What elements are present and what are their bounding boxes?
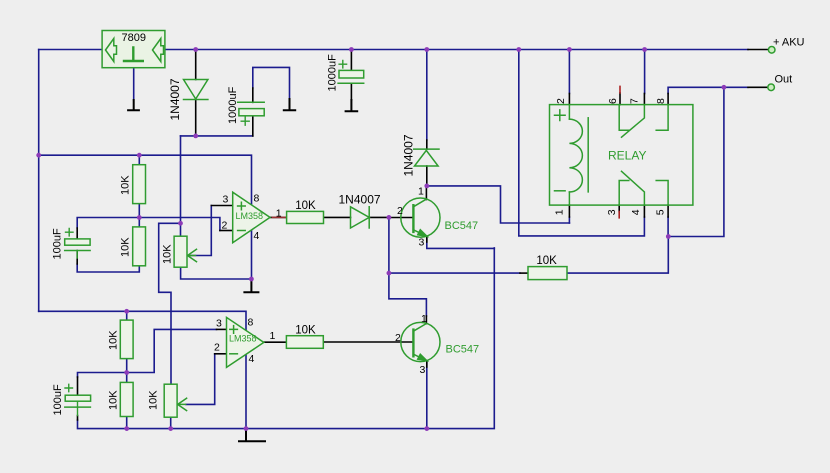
transistor Q2 collector diagonal bbox=[413, 324, 426, 332]
svg-text:3: 3 bbox=[420, 364, 426, 376]
svg-text:1: 1 bbox=[418, 186, 424, 198]
node 9V lower rail / R4 bbox=[124, 309, 129, 314]
node top rail / D1 bbox=[193, 47, 198, 52]
wire 9V rail upper (to opamp1 pin8) bbox=[39, 155, 252, 205]
wire opamp2 output to R6 bbox=[264, 341, 287, 343]
opamp U1 minus sign bbox=[238, 230, 246, 232]
svg-text:7809: 7809 bbox=[122, 32, 146, 44]
terminal +AKU circle bbox=[768, 47, 775, 54]
opamp U1 plus sign bbox=[238, 202, 246, 210]
wire base node to R7 bbox=[389, 272, 520, 274]
wire Q1 emitter black part bbox=[426, 236, 428, 242]
svg-text:8: 8 bbox=[655, 98, 667, 104]
wire relay coil pin1 wire bbox=[568, 217, 570, 223]
capacitor C2 1000uF plates bbox=[338, 61, 364, 84]
svg-text:2: 2 bbox=[222, 220, 228, 232]
ground for opamp1 pin4 bbox=[244, 279, 258, 292]
svg-text:LM358: LM358 bbox=[229, 334, 257, 344]
relay K1 box bbox=[550, 105, 693, 206]
wire C1 negative hook to ground bbox=[253, 67, 290, 99]
capacitor C4 100uF plates bbox=[65, 384, 91, 407]
wire C3 bottom loop to R2 bbox=[77, 264, 139, 272]
opamp U2 minus sign bbox=[230, 353, 238, 355]
resistor R2 10K (divider1 bottom) bbox=[133, 227, 146, 266]
svg-text:10K: 10K bbox=[120, 237, 132, 257]
wire C3 leads black bbox=[76, 228, 78, 264]
ground under 7809 bbox=[128, 100, 139, 110]
svg-text:10K: 10K bbox=[295, 325, 316, 337]
svg-text:5: 5 bbox=[655, 209, 667, 215]
svg-text:7: 7 bbox=[629, 98, 641, 104]
wire relay pin5 stub black bbox=[667, 205, 669, 217]
transistor Q2 base bar bbox=[412, 330, 414, 357]
svg-text:2: 2 bbox=[397, 205, 403, 217]
wire +12V top rail right segment to +AKU bbox=[165, 49, 748, 51]
regulator U3 7809 box bbox=[102, 31, 165, 68]
wire C1 leads black bbox=[252, 88, 254, 136]
node top rail / relay pin2 bbox=[567, 47, 572, 52]
wire opamp1 output to R3 bbox=[270, 216, 287, 218]
svg-text:1: 1 bbox=[421, 313, 427, 325]
wire relay pin8 to Out bbox=[668, 87, 748, 93]
wire pot2 bottom lead bbox=[170, 417, 172, 428]
ground for C2 bbox=[346, 100, 358, 111]
wire AKU terminal stub bbox=[748, 49, 769, 51]
node D1 cathode bbox=[193, 134, 198, 139]
wire +12V top rail left segment bbox=[39, 49, 102, 51]
wire opamp2 pin2 stub bbox=[215, 353, 227, 355]
wire relay pin5 wire bbox=[667, 217, 669, 237]
svg-text:100uF: 100uF bbox=[52, 384, 64, 415]
svg-text:10K: 10K bbox=[108, 330, 120, 350]
node top rail / pin4 wire bbox=[516, 47, 521, 52]
svg-text:3: 3 bbox=[223, 193, 229, 205]
wire base node to Q1 base bbox=[389, 217, 414, 219]
wire relay pin7 from rail bbox=[644, 50, 646, 94]
svg-text:6: 6 bbox=[607, 98, 619, 104]
wire D2 lead black parts bbox=[426, 140, 428, 186]
svg-text:8: 8 bbox=[254, 193, 260, 205]
node bottom rail / Q2 emitter bbox=[424, 426, 429, 431]
wire Out terminal stub bbox=[748, 86, 768, 88]
wire Q1 collector black part bbox=[425, 186, 427, 200]
svg-text:1000uF: 1000uF bbox=[227, 86, 239, 124]
wire relay pin2 stub black bbox=[568, 94, 570, 105]
capacitor C3 lower pin stub bbox=[76, 251, 78, 258]
capacitor C2 plus sign bbox=[339, 61, 347, 68]
node pot1 feed branch bbox=[178, 221, 183, 226]
node Out wire bbox=[722, 85, 727, 90]
svg-text:4: 4 bbox=[249, 353, 255, 365]
transistor Q1 collector diagonal bbox=[413, 199, 426, 207]
svg-text:1000uF: 1000uF bbox=[327, 54, 339, 92]
regulator U3 right arrow bbox=[153, 39, 164, 62]
svg-text:3: 3 bbox=[216, 318, 222, 330]
svg-text:1: 1 bbox=[276, 208, 282, 220]
diode D3 1N4007 (horizontal) bbox=[351, 207, 370, 228]
wire R7 left black stub bbox=[520, 272, 528, 274]
wire Q2 collector path bbox=[389, 273, 427, 316]
wire R3 to D3 bbox=[324, 216, 351, 218]
capacitor C1 1000uF plates bbox=[238, 102, 265, 125]
potentiometer P1 10K body bbox=[174, 236, 187, 267]
wire relay pin2 from rail bbox=[568, 50, 570, 94]
transistor Q2 emitter arrowhead bbox=[418, 354, 427, 361]
diode D1 1N4007 (vertical, top-left) bbox=[184, 80, 208, 100]
wire R6 to Q2 base bbox=[323, 341, 413, 343]
relay K1 pin2 internal bbox=[568, 105, 570, 120]
potentiometer P2 wiper arrow bbox=[178, 398, 187, 410]
capacitor C1 plus sign bbox=[241, 117, 249, 125]
wire relay pin8 stub black bbox=[667, 94, 669, 105]
svg-text:1N4007: 1N4007 bbox=[402, 134, 416, 176]
svg-text:10K: 10K bbox=[148, 390, 160, 410]
svg-text:2: 2 bbox=[395, 332, 401, 344]
node top rail / C2 bbox=[349, 47, 354, 52]
svg-text:3: 3 bbox=[419, 237, 425, 249]
svg-text:4: 4 bbox=[254, 230, 260, 242]
svg-text:1: 1 bbox=[553, 209, 565, 215]
resistor R5 10K (divider2 bottom) bbox=[120, 382, 133, 416]
wire Q1 emitter to bottom rail bbox=[427, 236, 495, 248]
svg-text:1N4007: 1N4007 bbox=[168, 78, 182, 120]
wire relay pin7 stub black bbox=[643, 94, 645, 105]
regulator U3 internal ground bbox=[124, 48, 143, 62]
node top rail / D2 bbox=[424, 47, 429, 52]
opamp U2 plus sign bbox=[230, 326, 238, 334]
svg-text:10K: 10K bbox=[108, 390, 120, 410]
wire opamp1 pin3 stub bbox=[211, 205, 232, 207]
transistor Q1 emitter diagonal bbox=[413, 230, 426, 237]
transistor Q2 BC547 circle bbox=[401, 322, 440, 361]
wire relay pin4 stub black bbox=[643, 205, 645, 217]
capacitor C4 plus sign bbox=[65, 384, 73, 391]
capacitor C3 plus sign bbox=[66, 229, 74, 236]
svg-text:10K: 10K bbox=[120, 175, 132, 195]
wire divider2 mid node horizontal bbox=[78, 329, 217, 377]
wire divider1 leads bbox=[138, 155, 140, 227]
wire relay pin1 stub black bbox=[568, 205, 570, 217]
wire Q1 collector node to relay coil pin1 bbox=[427, 186, 570, 223]
node 9V rail / R1 top bbox=[137, 153, 142, 158]
wire opamp1 pin2 stub bbox=[220, 230, 233, 232]
wire node9V horizontal under D1 bbox=[181, 135, 253, 137]
potentiometer P2 10K body bbox=[164, 384, 177, 417]
capacitor C3 100uF plates bbox=[65, 229, 90, 251]
wire relay pin6 stub black bbox=[619, 93, 621, 105]
wire D2 top lead bbox=[426, 50, 428, 141]
opamp U1 LM358 triangle bbox=[233, 192, 270, 243]
relay K1 coil minus sign bbox=[555, 190, 566, 192]
capacitor C4 pin stubs bbox=[77, 401, 79, 415]
svg-text:8: 8 bbox=[248, 316, 254, 328]
node bottom rail / P2 bbox=[168, 426, 173, 431]
red pin tick relay pin6 bbox=[619, 86, 621, 93]
svg-text:BC547: BC547 bbox=[445, 220, 479, 232]
wire pot1 bottom to gnd node bbox=[181, 267, 252, 279]
svg-text:1N4007: 1N4007 bbox=[339, 193, 381, 207]
wire 9V rail lower (to opamp2 pin8) bbox=[39, 311, 246, 330]
wire divider1 mid node horizontal bbox=[77, 218, 220, 231]
resistor R1 10K (divider1 top) bbox=[133, 165, 146, 204]
relay K1 pin5 internal contact bbox=[656, 181, 668, 206]
svg-text:4: 4 bbox=[630, 209, 642, 215]
ground for opamp2 pin4 bbox=[239, 429, 265, 442]
relay K1 pin4 internal lever bbox=[622, 171, 645, 205]
wire D1 leads black bbox=[195, 50, 197, 136]
relay K1 pin6 internal contact bbox=[619, 105, 629, 131]
red segment opamp1 output pin bbox=[272, 216, 286, 218]
relay K1 pin7 internal lever bbox=[622, 105, 645, 138]
wire divider2 leads bbox=[126, 311, 128, 428]
wire Q2 collector black part bbox=[425, 316, 427, 324]
wire rail to relay pin4 jog bbox=[519, 50, 645, 236]
potentiometer P1 wiper arrow bbox=[188, 249, 197, 261]
relay K1 pin8 internal contact bbox=[656, 105, 668, 131]
relay K1 pin3 internal contact bbox=[619, 181, 629, 206]
red pin tick relay pin3 bbox=[618, 212, 620, 218]
svg-text:LM358: LM358 bbox=[236, 211, 264, 221]
wire pot1 wiper to opamp1 pin3 bbox=[189, 206, 211, 256]
node opamp1 gnd bbox=[249, 277, 254, 282]
relay K1 coil plus sign bbox=[555, 110, 566, 121]
node divider2 mid bbox=[124, 370, 129, 375]
node Q1 base / D3 bbox=[387, 215, 392, 220]
node relay pin5 / R7 bbox=[666, 234, 671, 239]
wire Q1 base node vertical bbox=[388, 217, 390, 273]
wire R7 right to relay pin5 node bbox=[567, 237, 668, 274]
svg-text:2: 2 bbox=[214, 342, 220, 354]
svg-text:100uF: 100uF bbox=[51, 228, 63, 259]
node base / R7 / Q2 bbox=[387, 271, 392, 276]
wire Q2 emitter down to rail bbox=[426, 361, 428, 429]
wire bottom ground rail bbox=[78, 248, 495, 429]
svg-text:10K: 10K bbox=[536, 255, 557, 267]
transistor Q1 emitter arrowhead bbox=[418, 230, 427, 237]
resistor R3 10K bbox=[287, 211, 324, 223]
svg-text:1: 1 bbox=[270, 330, 276, 342]
wire pot2 wiper to opamp2 pin2 bbox=[186, 354, 215, 405]
wire left vertical bus bbox=[38, 50, 40, 312]
svg-text:+ AKU: + AKU bbox=[773, 37, 805, 49]
svg-text:3: 3 bbox=[606, 209, 618, 215]
wire relay pin3 stub black bbox=[618, 205, 620, 211]
wire C2 leads black bbox=[350, 50, 352, 101]
resistor R6 10K bbox=[286, 336, 323, 349]
relay K1 pin1 internal bbox=[568, 192, 570, 205]
wire opamp2 pin4 down to rail bbox=[245, 354, 247, 428]
svg-text:BC547: BC547 bbox=[446, 344, 480, 356]
node Q1 collector / D2 bbox=[424, 184, 429, 189]
node left bus / 9V rail bbox=[36, 153, 41, 158]
wire opamp1 pin4 to gnd node bbox=[251, 230, 253, 279]
node bottom rail / R5 bbox=[124, 426, 129, 431]
regulator U3 left arrow bbox=[106, 39, 117, 62]
svg-text:10K: 10K bbox=[162, 244, 174, 264]
wire 7809 ground lead bbox=[133, 68, 135, 100]
svg-text:10K: 10K bbox=[295, 200, 316, 212]
transistor Q1 BC547 circle bbox=[401, 198, 440, 237]
diode D2 1N4007 (vertical, above Q1) bbox=[414, 149, 439, 166]
node top rail / relay pin7 bbox=[642, 47, 647, 52]
svg-text:RELAY: RELAY bbox=[608, 149, 646, 163]
wire C4 leads black bbox=[77, 377, 79, 420]
resistor R7 10K (near relay) bbox=[528, 267, 567, 280]
terminal Out circle bbox=[768, 84, 775, 91]
wire branch to lower pot feed bbox=[159, 223, 181, 384]
relay K1 coil arcs bbox=[569, 119, 582, 192]
svg-text:Out: Out bbox=[775, 74, 793, 86]
node divider1 mid bbox=[137, 215, 142, 220]
node bottom rail / opamp2 gnd bbox=[244, 426, 249, 431]
wire pot1 feed vertical bbox=[180, 136, 182, 236]
svg-text:2: 2 bbox=[555, 98, 567, 104]
transistor Q2 emitter diagonal bbox=[413, 354, 426, 361]
resistor R4 10K (divider2 top) bbox=[120, 320, 133, 359]
relay K1 core line bbox=[587, 118, 589, 192]
ground for C1 bbox=[284, 99, 295, 110]
wire pin5 node to Out vertical bbox=[668, 87, 724, 236]
wire Q2 emitter black part bbox=[426, 361, 428, 367]
wire opamp2 pin3 stub bbox=[217, 328, 227, 330]
transistor Q1 base bar bbox=[412, 205, 414, 232]
wire D3 to base node bbox=[369, 216, 389, 218]
opamp U2 LM358 triangle bbox=[227, 317, 264, 367]
